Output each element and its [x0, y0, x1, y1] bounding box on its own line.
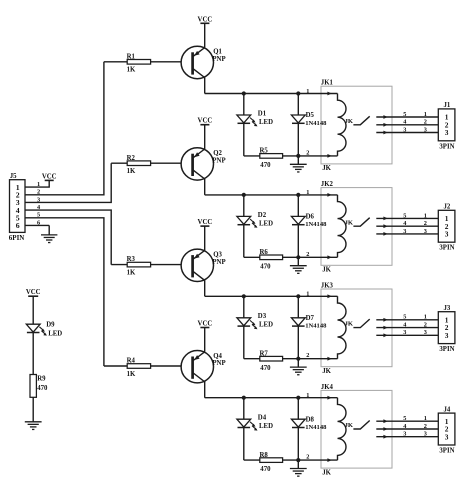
relay JK3 coil: [338, 296, 354, 358]
relay JK3 body: [321, 289, 392, 367]
svg-text:2: 2: [306, 352, 309, 359]
svg-text:1N4148: 1N4148: [305, 221, 327, 228]
resistor R7: [260, 350, 283, 371]
svg-text:R3: R3: [127, 256, 136, 263]
transistor Q4: [181, 328, 226, 398]
svg-text:3: 3: [445, 432, 449, 441]
ground ch4: [290, 460, 307, 476]
svg-text:6: 6: [16, 221, 20, 230]
pin number 4 relay JK4: [403, 423, 407, 430]
pin number 1 connector J3: [424, 314, 427, 321]
svg-text:2: 2: [37, 189, 40, 196]
svg-text:2: 2: [424, 119, 427, 126]
svg-text:1N4148: 1N4148: [305, 120, 327, 127]
svg-text:470: 470: [37, 385, 48, 392]
relay JK3 coil pin 2: [306, 352, 332, 360]
pin number 3 relay JK2: [403, 228, 406, 235]
pin number 2 connector J1: [424, 119, 427, 126]
VCC ch1: [198, 16, 213, 23]
pin number 2 J5: [37, 189, 40, 196]
wire relay JK3 contact 3 to J3 pin 3: [376, 333, 438, 337]
svg-text:R2: R2: [127, 155, 136, 162]
pin number 5 relay JK4: [403, 415, 406, 422]
svg-text:1: 1: [306, 189, 309, 196]
svg-text:JK2: JK2: [321, 181, 334, 188]
svg-text:1: 1: [424, 314, 427, 321]
relay JK2 coil pin 1: [306, 189, 332, 197]
resistor R1: [127, 53, 151, 73]
wire J5 pin 3 to R2: [25, 163, 111, 202]
svg-text:1: 1: [424, 111, 427, 118]
svg-text:1N4148: 1N4148: [305, 323, 327, 330]
relay JK1 label: [321, 80, 334, 87]
svg-text:JK4: JK4: [321, 384, 334, 391]
svg-text:J5: J5: [10, 173, 17, 180]
pin number 3 connector J3: [424, 329, 427, 336]
svg-text:2: 2: [424, 423, 427, 430]
pin number 3 relay JK1: [403, 126, 406, 133]
relay JK1 switch: [353, 116, 369, 125]
wire VCC to D9: [32, 296, 34, 324]
svg-text:JK: JK: [345, 219, 354, 226]
VCC ch3: [198, 219, 213, 226]
relay JK1 type label: [322, 165, 331, 172]
svg-text:2: 2: [306, 454, 309, 461]
connector J3: [438, 305, 455, 353]
wire R9 to ground: [32, 397, 34, 421]
svg-text:3: 3: [445, 128, 449, 137]
wire base ch3: [111, 264, 181, 266]
wire relay JK1 contact 4 to J1 pin 2: [376, 123, 438, 127]
relay JK4 label: [321, 384, 334, 391]
wire relay JK3 contact 5 to J3 pin 1: [376, 318, 438, 322]
pin number 1 connector J1: [424, 111, 427, 118]
svg-text:1N4148: 1N4148: [305, 424, 327, 431]
relay JK2 coil pin 2: [306, 251, 332, 259]
relay JK3 coil pin 1: [306, 291, 332, 299]
resistor R3: [127, 256, 151, 276]
svg-text:3: 3: [424, 228, 427, 235]
svg-text:Q3: Q3: [213, 251, 222, 258]
relay JK4 switch: [353, 421, 369, 430]
node ground junction ch4: [296, 458, 300, 462]
relay JK4 coil pin 1: [306, 392, 332, 400]
svg-text:D5: D5: [306, 112, 315, 119]
svg-text:LED: LED: [259, 423, 273, 430]
svg-text:1K: 1K: [127, 270, 136, 277]
pin number 1 J5: [37, 181, 40, 188]
svg-text:470: 470: [260, 466, 271, 473]
transistor Q3: [181, 226, 226, 296]
pin number 2 connector J4: [424, 423, 427, 430]
ground at J5: [41, 225, 57, 242]
svg-text:3: 3: [37, 196, 40, 203]
LED D1: [237, 94, 273, 156]
svg-text:3: 3: [403, 126, 406, 133]
svg-text:3: 3: [424, 431, 427, 438]
resistor R2: [127, 155, 151, 175]
diode D5: [291, 94, 327, 156]
svg-text:VCC: VCC: [198, 16, 213, 23]
wire collector rail ch2: [205, 194, 338, 196]
svg-text:JK: JK: [345, 422, 354, 429]
svg-text:LED: LED: [259, 220, 273, 227]
node ground junction ch2: [296, 255, 300, 259]
pin number 2 connector J2: [424, 220, 427, 227]
node D7 anode junction: [296, 294, 300, 298]
wire bottom rail ch4: [244, 459, 338, 461]
svg-text:1: 1: [306, 392, 309, 399]
wire relay JK1 contact 5 to J1 pin 1: [376, 115, 438, 119]
svg-text:Q4: Q4: [213, 353, 222, 360]
wire relay JK3 contact 4 to J3 pin 2: [376, 326, 438, 330]
svg-text:5: 5: [37, 212, 40, 219]
svg-text:1K: 1K: [127, 168, 136, 175]
pin number 1 connector J4: [424, 415, 427, 422]
node D2 anode junction: [242, 193, 246, 197]
pin number 5 J5: [37, 212, 40, 219]
svg-text:3: 3: [445, 230, 449, 239]
svg-text:1K: 1K: [127, 371, 136, 378]
svg-text:3PIN: 3PIN: [439, 245, 454, 252]
svg-text:JK1: JK1: [321, 80, 334, 87]
svg-text:D2: D2: [258, 212, 267, 219]
pin number 5 relay JK2: [403, 212, 406, 219]
svg-text:1: 1: [306, 291, 309, 298]
connector J1: [438, 102, 455, 150]
svg-text:D3: D3: [258, 313, 267, 320]
connector J2: [438, 204, 455, 252]
svg-text:470: 470: [260, 263, 271, 270]
pin number 3 relay JK4: [403, 431, 406, 438]
relay JK3 type label: [322, 368, 331, 375]
VCC ch2: [198, 118, 213, 125]
svg-text:1: 1: [424, 212, 427, 219]
relay JK2 switch: [353, 218, 369, 227]
svg-text:2: 2: [306, 149, 309, 156]
svg-text:PNP: PNP: [212, 259, 225, 266]
wire bottom rail ch2: [244, 256, 338, 258]
svg-text:J2: J2: [444, 204, 451, 211]
wire base ch4: [104, 365, 181, 367]
svg-text:JK: JK: [322, 368, 331, 375]
svg-text:D7: D7: [306, 315, 315, 322]
wire collector rail ch3: [205, 295, 338, 297]
LED D4: [237, 398, 273, 460]
relay JK4 coil: [338, 398, 354, 460]
svg-text:JK: JK: [345, 321, 354, 328]
pin number 1 connector J2: [424, 212, 427, 219]
svg-text:2: 2: [306, 251, 309, 258]
VCC ch4: [198, 321, 213, 328]
svg-text:R8: R8: [260, 452, 269, 459]
node ground junction ch1: [296, 154, 300, 158]
svg-text:LED: LED: [48, 330, 62, 337]
svg-text:PNP: PNP: [212, 157, 225, 164]
pin number 3 relay JK3: [403, 329, 406, 336]
svg-text:J3: J3: [444, 305, 451, 312]
VCC at D9: [26, 289, 41, 296]
relay JK1 body: [321, 86, 392, 164]
pin number 6 J5: [37, 219, 40, 226]
transistor Q1: [181, 23, 226, 93]
svg-text:JK: JK: [322, 165, 331, 172]
svg-text:JK: JK: [322, 267, 331, 274]
svg-text:LED: LED: [259, 119, 273, 126]
ground ch1: [290, 156, 307, 172]
svg-text:2: 2: [424, 322, 427, 329]
pin number 3 connector J1: [424, 126, 427, 133]
svg-text:6PIN: 6PIN: [9, 234, 25, 242]
connector J4: [438, 406, 455, 454]
relay JK1 coil pin 1: [306, 88, 332, 96]
wire relay JK2 contact 4 to J2 pin 2: [376, 224, 438, 228]
svg-text:1: 1: [37, 181, 40, 188]
svg-text:VCC: VCC: [198, 219, 213, 226]
wire J5 pin 2 to R1: [25, 62, 104, 195]
relay JK1 coil pin 2: [306, 149, 332, 157]
wire bottom rail ch1: [244, 155, 338, 157]
svg-text:5: 5: [403, 212, 406, 219]
svg-text:470: 470: [260, 162, 271, 169]
wire relay JK2 contact 5 to J2 pin 1: [376, 217, 438, 221]
ground at R9: [25, 422, 42, 430]
svg-text:3: 3: [445, 331, 449, 340]
wire base ch2: [111, 162, 181, 164]
svg-text:5: 5: [403, 111, 406, 118]
wire relay JK2 contact 3 to J2 pin 3: [376, 232, 438, 236]
svg-text:JK3: JK3: [321, 282, 334, 289]
svg-text:LED: LED: [259, 322, 273, 329]
pin number 5 relay JK3: [403, 314, 406, 321]
wire J5 pin 5 to R4: [25, 218, 104, 366]
svg-text:D9: D9: [46, 321, 55, 328]
svg-text:JK: JK: [345, 118, 354, 125]
connector J5: [9, 173, 25, 242]
node ground junction ch3: [296, 357, 300, 361]
relay JK4 body: [321, 390, 392, 468]
node D8 anode junction: [296, 396, 300, 400]
relay JK2 label: [321, 181, 334, 188]
svg-text:D4: D4: [258, 415, 267, 422]
svg-text:VCC: VCC: [198, 321, 213, 328]
svg-text:1: 1: [424, 415, 427, 422]
VCC at J5: [42, 173, 57, 180]
wire D9 to R9: [32, 333, 34, 375]
wire relay JK4 contact 4 to J4 pin 2: [376, 427, 438, 431]
svg-text:R1: R1: [127, 53, 136, 60]
svg-text:VCC: VCC: [26, 289, 41, 296]
pin number 4 relay JK3: [403, 322, 407, 329]
svg-text:470: 470: [260, 365, 271, 372]
svg-text:PNP: PNP: [212, 56, 225, 63]
svg-text:2: 2: [424, 220, 427, 227]
svg-text:R9: R9: [37, 376, 46, 383]
resistor R5: [260, 148, 283, 169]
relay JK1 coil: [338, 94, 354, 156]
svg-text:3: 3: [403, 431, 406, 438]
node D6 anode junction: [296, 193, 300, 197]
LED D2: [237, 195, 273, 257]
svg-text:3: 3: [424, 329, 427, 336]
wire J5 pin 4 to R3: [25, 210, 111, 265]
svg-text:1: 1: [306, 88, 309, 95]
wire base ch1: [104, 61, 181, 63]
svg-text:3PIN: 3PIN: [439, 448, 454, 455]
relay JK4 coil pin 2: [306, 454, 332, 462]
transistor Q2: [181, 125, 226, 195]
svg-text:VCC: VCC: [42, 173, 57, 180]
svg-text:Q1: Q1: [213, 49, 222, 56]
ground ch2: [290, 257, 307, 273]
wire relay JK4 contact 5 to J4 pin 1: [376, 419, 438, 423]
resistor R6: [260, 249, 283, 270]
svg-text:3: 3: [403, 228, 406, 235]
resistor R9: [30, 375, 48, 398]
svg-text:R4: R4: [127, 358, 136, 365]
wire bottom rail ch3: [244, 358, 338, 360]
relay JK3 switch: [353, 319, 369, 328]
wire J5 pin 6 to ground: [25, 224, 49, 226]
svg-text:D6: D6: [306, 214, 315, 221]
svg-text:J4: J4: [444, 406, 451, 413]
diode D8: [291, 398, 327, 460]
svg-text:6: 6: [37, 219, 40, 226]
svg-text:R6: R6: [260, 249, 269, 256]
relay JK4 type label: [322, 469, 331, 476]
pin number 2 connector J3: [424, 322, 427, 329]
svg-text:5: 5: [403, 314, 406, 321]
node D4 anode junction: [242, 396, 246, 400]
pin number 3 connector J2: [424, 228, 427, 235]
diode D6: [291, 195, 327, 257]
wire collector rail ch4: [205, 397, 338, 399]
svg-text:R5: R5: [260, 148, 269, 155]
node D3 anode junction: [242, 294, 246, 298]
relay JK2 type label: [322, 267, 331, 274]
svg-text:D1: D1: [258, 110, 267, 117]
svg-text:3: 3: [403, 329, 406, 336]
relay JK3 label: [321, 282, 334, 289]
resistor R4: [127, 358, 151, 378]
wire collector rail ch1: [205, 93, 338, 95]
relay JK2 body: [321, 188, 392, 266]
node D1 anode junction: [242, 91, 246, 95]
pin number 4 relay JK2: [403, 220, 407, 227]
wire relay JK4 contact 3 to J4 pin 3: [376, 435, 438, 439]
svg-text:3PIN: 3PIN: [439, 143, 454, 150]
svg-text:D8: D8: [306, 416, 315, 423]
wire J5 pin 1 to VCC: [25, 180, 49, 187]
pin number 5 relay JK1: [403, 111, 406, 118]
pin number 4 relay JK1: [403, 119, 407, 126]
resistor R8: [260, 452, 283, 473]
svg-text:VCC: VCC: [198, 118, 213, 125]
svg-text:J1: J1: [444, 102, 451, 109]
relay JK2 coil: [338, 195, 354, 257]
wire relay JK1 contact 3 to J1 pin 3: [376, 131, 438, 135]
node D5 anode junction: [296, 91, 300, 95]
diode D7: [291, 296, 327, 358]
ground ch3: [290, 359, 307, 375]
svg-text:3: 3: [424, 126, 427, 133]
svg-text:3PIN: 3PIN: [439, 346, 454, 353]
svg-text:PNP: PNP: [212, 360, 225, 367]
svg-text:5: 5: [403, 415, 406, 422]
svg-text:R7: R7: [260, 350, 269, 357]
pin number 3 J5: [37, 196, 40, 203]
svg-text:1K: 1K: [127, 67, 136, 74]
svg-text:JK: JK: [322, 469, 331, 476]
LED D9: [26, 321, 62, 337]
LED D3: [237, 296, 273, 358]
svg-text:Q2: Q2: [213, 150, 222, 157]
pin number 3 connector J4: [424, 431, 427, 438]
pin number 4 J5: [37, 204, 41, 211]
